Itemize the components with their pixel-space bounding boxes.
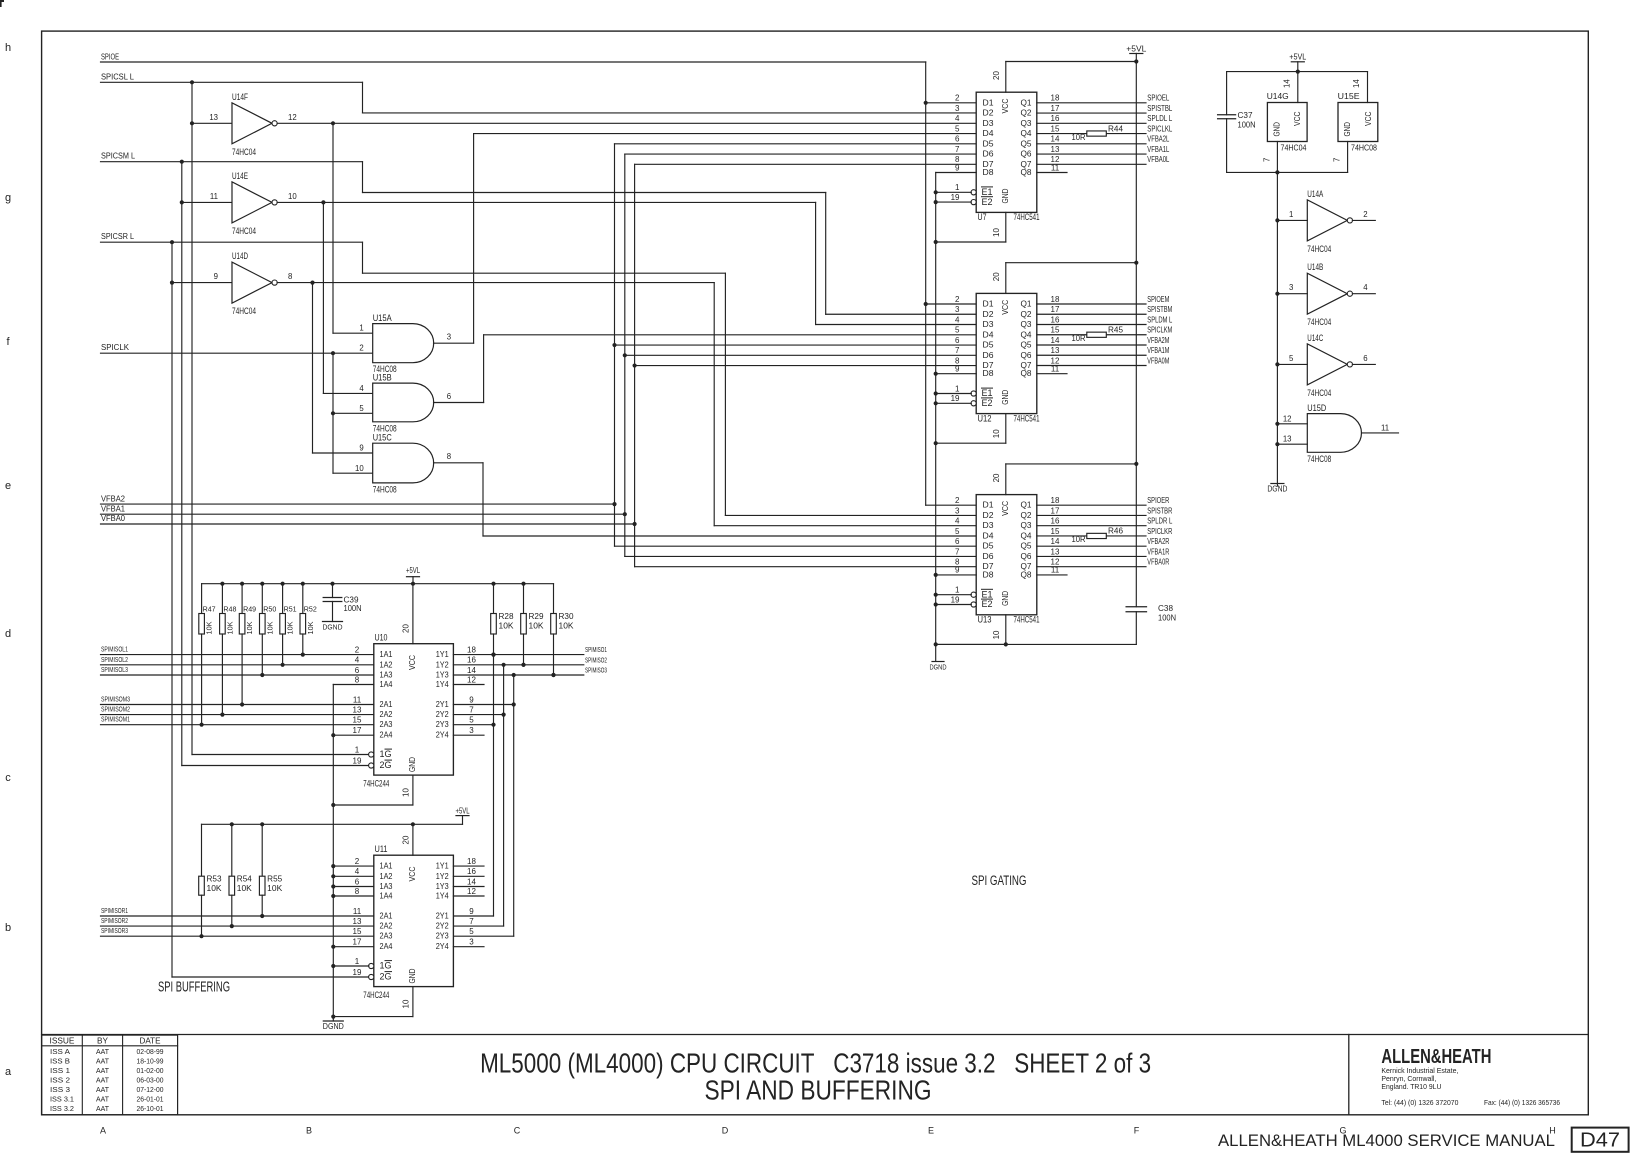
svg-text:VCC: VCC [1000,99,1010,114]
svg-text:2: 2 [355,645,360,654]
power +5VL rail U11 [202,807,470,827]
wire SPICSR to U14D and U11 2G [170,242,369,977]
svg-text:U10: U10 [375,633,388,644]
wire U11 GND pin 10 [331,987,413,1019]
wire U7 outputs Q1-Q8 [1037,103,1146,173]
resistor R55 10K [259,824,282,918]
svg-text:AAT: AAT [96,1106,110,1113]
svg-text:R48: R48 [223,605,236,614]
svg-text:17: 17 [353,726,362,735]
wire SPIMISO2 line [453,663,583,667]
svg-text:h: h [5,42,11,54]
svg-text:2: 2 [955,295,960,304]
svg-text:9: 9 [469,695,474,704]
node SPIMISOL1 [101,645,374,655]
svg-text:19: 19 [353,756,362,765]
svg-text:1: 1 [355,957,360,966]
svg-text:17: 17 [1051,104,1060,113]
svg-text:10K: 10K [559,621,575,630]
svg-text:c: c [5,772,11,784]
svg-text:18: 18 [1051,94,1060,103]
svg-text:7: 7 [955,346,960,355]
svg-text:10: 10 [992,630,1001,639]
wire SPICLK to U15B pin5 and U15C pin10 [331,353,373,473]
svg-text:8: 8 [355,887,360,896]
svg-text:D1: D1 [983,97,994,107]
svg-text:R53: R53 [207,875,223,884]
svg-text:Q8: Q8 [1021,569,1032,579]
svg-text:2Y2: 2Y2 [436,709,449,719]
svg-text:3: 3 [447,333,451,342]
node SPLDR L [1147,517,1172,526]
svg-text:2: 2 [359,344,363,353]
svg-text:18: 18 [467,857,476,866]
svg-text:5: 5 [955,527,960,536]
wire SPICSM to U14E and U10 2G [180,162,369,766]
svg-text:SPIOER: SPIOER [1147,496,1169,505]
node SPLDM L [1147,315,1172,324]
svg-text:12: 12 [1283,414,1292,423]
svg-text:8: 8 [447,452,451,461]
svg-text:10K: 10K [529,621,545,630]
power +5VL rail U10 [202,566,554,586]
svg-text:+5VL: +5VL [1289,53,1306,62]
node VFBA1 [101,504,627,516]
and-gate U15A [359,313,451,375]
svg-text:2: 2 [1363,210,1367,219]
node SPLDL L [1147,114,1172,123]
text SPI BUFFERING [158,979,230,996]
svg-text:U13: U13 [978,615,992,626]
ground DGND under C39 [323,622,344,632]
svg-text:2A4: 2A4 [380,730,393,740]
svg-text:VCC: VCC [1364,111,1373,126]
svg-text:DGND: DGND [930,663,947,672]
node VFBA0L [1147,155,1169,164]
svg-text:10R: 10R [1072,133,1086,142]
svg-text:17: 17 [353,938,362,947]
svg-text:6: 6 [955,135,960,144]
ground DGND under U11 [323,1017,344,1032]
svg-text:14: 14 [1051,135,1060,144]
svg-text:R54: R54 [237,875,253,884]
node SPICLKM [1147,326,1172,335]
wire U14F output to U7 D3 [277,121,976,125]
svg-text:C38: C38 [1158,604,1174,613]
svg-text:SPI BUFFERING: SPI BUFFERING [158,979,230,996]
svg-text:SPICSL L: SPICSL L [101,72,135,81]
node SPISTBR [1147,506,1172,515]
svg-text:VCC: VCC [407,655,417,670]
wire U7 VCC pin 20 to +5VL rail [992,59,1138,92]
svg-text:2: 2 [955,94,960,103]
svg-text:10: 10 [355,464,364,473]
svg-text:g: g [5,192,11,204]
svg-text:11: 11 [353,907,362,916]
svg-text:Q1: Q1 [1021,97,1032,107]
svg-text:VFBA1M: VFBA1M [1147,346,1169,355]
power +5VL rail right [1126,45,1147,607]
svg-text:18: 18 [467,645,476,654]
node VFBA0 [101,514,637,526]
svg-text:1Y1: 1Y1 [436,861,449,871]
resistor R45 10R [1072,326,1124,344]
svg-text:SPIOEM: SPIOEM [1147,295,1169,304]
svg-text:GND: GND [1000,390,1010,405]
node SPIOE [101,52,926,62]
resistor R53 10K [199,824,222,938]
svg-text:10K: 10K [207,884,223,893]
svg-text:ISS 3.1: ISS 3.1 [50,1096,74,1103]
svg-text:GND: GND [1000,189,1010,204]
node SPIOER [1147,496,1169,505]
buffer U13 74HC541 [951,495,1060,626]
wire +5VL rail to C37 and U15E [1227,71,1368,73]
svg-text:2Y1: 2Y1 [436,699,449,709]
inverter U14B [1277,262,1375,328]
svg-text:18: 18 [1051,295,1060,304]
svg-text:1A3: 1A3 [380,881,393,891]
svg-text:U14F: U14F [232,92,248,102]
svg-text:R46: R46 [1108,527,1124,536]
svg-text:ISS A: ISS A [50,1049,70,1056]
svg-text:+5VL: +5VL [456,807,470,816]
wire U13 D8 E1 E2 to DGND net [934,573,977,607]
and-gate U15D [1277,403,1398,465]
node SPICLK [101,343,373,355]
resistor R49 10K [239,584,256,707]
svg-text:U7: U7 [978,212,987,223]
svg-text:GND: GND [407,969,417,984]
wire U14D output to U13 D3 [277,281,976,526]
svg-text:E: E [928,1126,934,1136]
wire DGND rail top right [1227,170,1348,174]
node SPISTBL [1147,104,1172,113]
svg-text:15: 15 [1051,326,1060,335]
wire U13 GND pin 10 [936,615,1006,645]
resistor R52 10K [300,584,317,657]
svg-text:19: 19 [353,968,362,977]
svg-text:12: 12 [467,887,476,896]
svg-text:SPIMISOR2: SPIMISOR2 [101,916,128,925]
svg-text:5: 5 [955,124,960,133]
svg-text:1: 1 [355,745,360,754]
node SPICLKL [1147,124,1172,133]
svg-text:6: 6 [447,392,451,401]
wire U11 1Y stubs [453,866,484,896]
svg-text:D3: D3 [983,319,994,329]
svg-text:20: 20 [402,835,411,844]
svg-text:SPIMISOM2: SPIMISOM2 [101,705,130,714]
svg-text:a: a [5,1066,12,1078]
svg-text:1: 1 [955,384,960,393]
node SPIMISOM1 [101,715,374,725]
svg-text:2A2: 2A2 [380,921,393,931]
node SPIMISOR2 [101,916,374,926]
svg-text:100N: 100N [1158,614,1176,623]
inverter U14C [1277,333,1375,399]
svg-text:20: 20 [402,624,411,633]
svg-text:VFBA1R: VFBA1R [1147,547,1169,556]
svg-text:1G: 1G [380,961,392,971]
wire VFBA2 vertical to D5 pins [612,144,976,546]
svg-text:15: 15 [1051,124,1060,133]
svg-text:U14A: U14A [1307,189,1323,199]
svg-text:2Y2: 2Y2 [436,921,449,931]
wire U14D out to U15C pin9 [313,283,373,453]
svg-text:DGND: DGND [1267,484,1287,494]
svg-text:1A1: 1A1 [380,649,393,659]
inverter U14E [210,171,297,237]
svg-text:R28: R28 [499,612,515,621]
svg-text:+5VL: +5VL [1126,45,1147,54]
svg-text:20: 20 [992,272,1001,281]
svg-text:D1: D1 [983,500,994,510]
svg-text:Fax: (44) (0) 1326 365736: Fax: (44) (0) 1326 365736 [1484,1098,1560,1107]
svg-text:9: 9 [214,272,218,281]
svg-text:VFBA2M: VFBA2M [1147,336,1169,345]
svg-text:R49: R49 [243,605,256,614]
svg-text:Q6: Q6 [1021,350,1032,360]
svg-text:E2: E2 [982,197,993,207]
svg-text:SPICLKL: SPICLKL [1147,124,1172,133]
svg-text:AAT: AAT [96,1096,110,1103]
svg-text:16: 16 [467,656,476,665]
svg-text:13: 13 [353,705,362,714]
svg-text:AAT: AAT [96,1068,110,1075]
svg-text:14: 14 [1352,79,1361,88]
wire SPIOE to U7 U12 U13 D1 [924,62,977,505]
svg-text:5: 5 [955,326,960,335]
node SPIMISOM2 [101,705,374,715]
svg-text:SPICSR L: SPICSR L [101,232,134,241]
buffer U11 74HC244 [353,844,477,1001]
wire U10 VCC pin 20 [402,584,413,644]
node SPICLKR [1147,527,1172,536]
capacitor C38 100N [1126,604,1176,644]
svg-text:2G: 2G [380,972,392,982]
svg-text:10K: 10K [499,621,515,630]
node SPIOEL [1147,94,1169,103]
svg-text:SPIMISOL2: SPIMISOL2 [101,655,128,664]
svg-text:R30: R30 [559,612,575,621]
svg-text:10K: 10K [245,621,254,634]
resistor R50 10K [260,584,277,677]
svg-text:VFBA2L: VFBA2L [1147,135,1169,144]
svg-text:SPIMISOR3: SPIMISOR3 [101,926,128,935]
node VFBA1M [1147,346,1169,355]
ground DGND top right [1267,484,1287,494]
svg-text:GND: GND [1000,591,1010,606]
svg-text:U15C: U15C [373,433,392,443]
svg-text:A: A [100,1126,106,1136]
svg-text:B: B [306,1126,312,1136]
svg-text:D5: D5 [983,541,994,551]
svg-text:10K: 10K [306,621,315,634]
svg-text:1A4: 1A4 [380,891,393,901]
svg-text:1Y4: 1Y4 [436,679,449,689]
svg-text:74HC08: 74HC08 [373,484,397,495]
svg-text:D4: D4 [983,530,994,540]
buffer U12 74HC541 [951,293,1060,424]
node VFBA2 [101,494,617,506]
svg-text:100N: 100N [1238,121,1256,130]
svg-text:SPIMISO1: SPIMISO1 [585,645,607,654]
svg-text:E1: E1 [982,388,993,398]
svg-text:Q1: Q1 [1021,500,1032,510]
resistor R48 10K [220,584,237,717]
svg-text:2A1: 2A1 [380,699,393,709]
wire VFBA0 vertical to D7 pins [633,164,977,566]
svg-text:VCC: VCC [1000,501,1010,516]
svg-text:SPISTBL: SPISTBL [1147,104,1172,113]
svg-text:74HC04: 74HC04 [1307,244,1331,255]
svg-text:2A4: 2A4 [380,941,393,951]
svg-text:7: 7 [955,145,960,154]
logo ALLEN&HEATH [1381,1046,1560,1107]
svg-text:SPIMISOM1: SPIMISOM1 [101,715,130,724]
svg-text:F: F [1134,1126,1140,1136]
svg-text:15: 15 [1051,527,1060,536]
svg-text:U14E: U14E [232,171,248,181]
svg-text:U15E: U15E [1338,91,1360,101]
svg-text:12: 12 [467,675,476,684]
svg-text:D3: D3 [983,118,994,128]
svg-text:Q2: Q2 [1021,108,1032,118]
svg-text:9: 9 [955,566,960,575]
svg-text:ISS B: ISS B [50,1059,70,1066]
svg-text:E1: E1 [982,187,993,197]
svg-text:7: 7 [469,705,474,714]
buffer U7 74HC541 [951,92,1060,223]
svg-text:VFBA0L: VFBA0L [1147,155,1169,164]
svg-text:SPIMISOL3: SPIMISOL3 [101,665,128,674]
svg-text:ISS 3: ISS 3 [50,1087,70,1094]
svg-text:4: 4 [955,114,960,123]
wire DGND row under U13 [934,642,1137,646]
svg-text:+5VL: +5VL [406,566,420,575]
svg-text:SPI GATING: SPI GATING [972,873,1027,888]
svg-text:10K: 10K [237,884,253,893]
svg-text:9: 9 [469,907,474,916]
svg-text:1Y2: 1Y2 [436,871,449,881]
svg-text:U12: U12 [978,413,992,424]
svg-text:2A3: 2A3 [380,931,393,941]
power-pins U14G 74HC04 [1263,72,1308,173]
wire ground net 1A4 2A4 [331,685,374,1017]
wire SPIMISO1 to U10 2Y3 and U11 2Y1 [453,655,495,916]
svg-text:VFBA0M: VFBA0M [1147,356,1169,365]
svg-text:Q4: Q4 [1021,128,1032,138]
svg-text:74HC04: 74HC04 [232,226,256,237]
title block [42,1035,1589,1115]
svg-text:26-01-01: 26-01-01 [137,1096,164,1103]
svg-text:74HC08: 74HC08 [1351,142,1377,152]
node VFBA2R [1147,537,1169,546]
svg-text:8: 8 [355,675,360,684]
svg-text:10: 10 [402,788,411,797]
resistor R47 10K [199,584,216,727]
svg-text:13: 13 [1051,346,1060,355]
svg-text:R51: R51 [284,605,297,614]
svg-text:74HC244: 74HC244 [363,990,389,1001]
svg-text:VCC: VCC [1000,300,1010,315]
svg-text:10K: 10K [286,621,295,634]
node SPIMISOL3 [101,665,374,675]
svg-text:AAT: AAT [96,1049,110,1056]
svg-text:SPICSM L: SPICSM L [101,152,136,161]
svg-text:14: 14 [1283,79,1292,88]
svg-text:DGND: DGND [323,1022,344,1031]
svg-text:D47: D47 [1580,1130,1620,1152]
svg-text:74HC541: 74HC541 [1014,615,1040,626]
svg-text:3: 3 [469,726,474,735]
svg-text:14: 14 [1051,336,1060,345]
wire U15A output to U7 D4 [434,134,977,344]
node SPICSM L [101,152,363,164]
svg-text:Q1: Q1 [1021,299,1032,309]
svg-text:VCC: VCC [407,867,417,882]
resistor R51 10K [280,584,297,667]
wire U7 D8 E1 E2 to DGND net [934,173,977,205]
wire U11 2Y4 stub [453,946,484,948]
svg-text:11: 11 [1381,423,1389,432]
node SPIMISO2 [585,655,607,664]
svg-text:VFBA0R: VFBA0R [1147,558,1169,567]
svg-text:3: 3 [955,506,960,515]
svg-text:2Y4: 2Y4 [436,730,449,740]
svg-text:15: 15 [353,927,362,936]
svg-text:8: 8 [288,272,292,281]
power +5VL top right [1289,53,1306,74]
svg-text:1A1: 1A1 [380,861,393,871]
svg-text:6: 6 [955,336,960,345]
wire U14F out to U15A pin1 [333,123,373,333]
svg-text:2A3: 2A3 [380,719,393,729]
node SPIMISOL2 [101,655,374,665]
svg-text:E1: E1 [982,589,993,599]
svg-text:SPIMISOL1: SPIMISOL1 [101,645,128,654]
svg-text:U14D: U14D [232,251,248,261]
svg-text:3: 3 [955,104,960,113]
svg-text:ALLEN&HEATH ML4000 SERVICE MAN: ALLEN&HEATH ML4000 SERVICE MANUAL [1218,1131,1555,1150]
svg-text:SPICLKM: SPICLKM [1147,326,1172,335]
svg-text:D5: D5 [983,340,994,350]
svg-text:5: 5 [469,716,474,725]
svg-text:Q4: Q4 [1021,530,1032,540]
svg-text:11: 11 [353,695,362,704]
svg-text:U15B: U15B [373,373,392,383]
wire U12 GND pin 10 [934,414,1006,446]
svg-text:U14G: U14G [1267,91,1289,101]
svg-text:1A3: 1A3 [380,670,393,680]
wire U12 D8 E1 E2 to DGND net [934,372,977,406]
node SPICSL L [101,72,363,84]
wire U11 VCC pin 20 [402,824,413,855]
svg-text:7: 7 [1263,158,1272,162]
wire U15B output to U12 D4 [434,335,977,403]
svg-text:R47: R47 [203,605,216,614]
svg-text:E2: E2 [982,599,993,609]
footer [1218,1128,1629,1152]
node VFBA1L [1147,145,1169,154]
svg-text:02-08-99: 02-08-99 [137,1049,164,1056]
svg-text:AAT: AAT [96,1087,110,1094]
svg-text:10K: 10K [265,621,274,634]
svg-text:26-10-01: 26-10-01 [137,1106,164,1113]
svg-text:18-10-99: 18-10-99 [137,1059,164,1066]
svg-text:Q8: Q8 [1021,167,1032,177]
